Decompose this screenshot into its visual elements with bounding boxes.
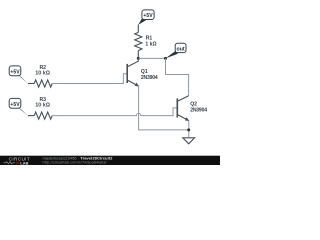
svg-text:LAB: LAB [20,160,28,165]
+5V flag (left lower, feeding R3) [9,98,28,116]
wire: node A to out node [138,57,165,59]
resistor R2 10 kOhm (horizontal) [28,80,52,87]
wire: Q2 emitter down to ground junction [188,121,190,138]
ground [183,138,195,144]
wire: R3 to Q2 base, with hop over Q1 emitter wire [52,108,177,116]
svg-text:out: out [177,46,185,52]
wire: R2 to Q1 base [52,74,127,84]
transistor Q2 2N3904 [177,96,189,121]
svg-text:+5V: +5V [10,102,20,108]
svg-text:+5V: +5V [10,69,20,75]
svg-text:http://circuitlab.com/c/7w9pa6: http://circuitlab.com/c/7w9pa64wk3/ [43,160,108,165]
node out: junction dot [164,57,167,60]
resistor R3 10 kOhm (horizontal) [28,112,52,119]
+5V flag (top, feeding R1) [138,10,154,25]
svg-text:1 kΩ: 1 kΩ [145,42,156,48]
svg-text:2N3904: 2N3904 [190,107,207,113]
svg-text:+5V: +5V [143,13,153,19]
svg-text:10 kΩ: 10 kΩ [35,103,50,109]
footer bar [0,156,220,165]
CircuitLab logo [3,156,30,165]
wire: Q1 emitter down, then right to ground rail [139,86,189,130]
svg-text:2N3904: 2N3904 [141,75,158,81]
resistor R1 1 kOhm (vertical) [135,25,142,59]
+5V flag (left upper, feeding R2) [9,66,28,84]
wire: out node down and right to Q2 collector [166,58,189,95]
node A: junction dot under R1 [137,57,140,60]
transistor Q1 2N3904 [127,58,138,86]
svg-text:10 kΩ: 10 kΩ [35,71,50,77]
out flag [166,43,187,58]
svg-text:Q1: Q1 [141,69,148,75]
junction dot: emitter rail meets ground lead [187,128,190,131]
